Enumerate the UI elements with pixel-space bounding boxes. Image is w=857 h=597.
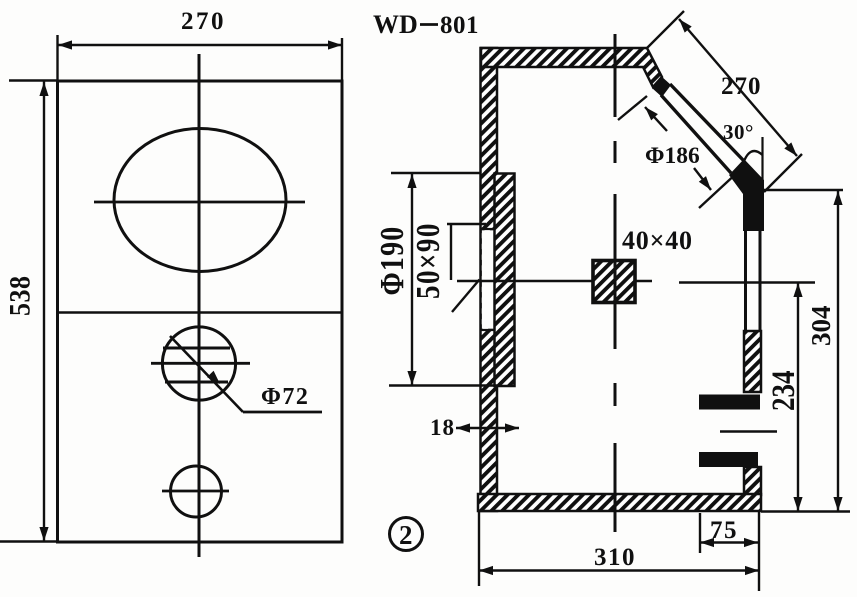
dim phi186: lower arrowhead: [699, 176, 711, 190]
svg-text:2: 2: [399, 520, 413, 550]
dim 75: left arrow: [700, 538, 714, 547]
section: black gasket on duct: [652, 76, 671, 97]
dim 18: right arrow: [505, 423, 519, 432]
svg-text:30°: 30°: [723, 120, 754, 144]
section: speaker axis line left: [457, 280, 593, 283]
svg-text:538: 538: [3, 276, 36, 316]
dim phi186: upper boundary tick: [618, 96, 647, 120]
section: top wall hatched: [481, 48, 662, 87]
section: left wall opening (vent slot): [482, 230, 496, 328]
dim 304: bottom arrow: [833, 497, 842, 511]
svg-text:75: 75: [710, 517, 738, 544]
section: duct lower face: [661, 95, 731, 173]
phi72 leader diagonal: [170, 336, 243, 412]
svg-text:270: 270: [181, 8, 226, 35]
mid circle horizontal center line: [151, 362, 250, 365]
svg-text:WD: WD: [373, 10, 418, 39]
svg-text:270: 270: [721, 73, 762, 100]
dim phi190: dimension line: [411, 174, 413, 385]
dim 18: left arrow: [456, 423, 470, 432]
front view box outline: [58, 81, 343, 542]
svg-text:304: 304: [806, 306, 836, 347]
speaker ellipse: [114, 129, 286, 272]
front view divider line: [58, 311, 343, 314]
dim 310: right extension: [758, 511, 760, 591]
dim 538: bottom extension: [0, 540, 58, 542]
svg-text:310: 310: [594, 544, 636, 571]
svg-text:234: 234: [766, 370, 802, 411]
angle 30: arc: [742, 151, 763, 167]
dim 304: dimension line: [837, 191, 839, 511]
dim 270 top: left arrow: [58, 40, 72, 49]
dim 304: top extension: [764, 189, 843, 191]
section: speaker axis line right stub: [635, 280, 652, 283]
dim 310: dimension line: [479, 569, 759, 571]
dim 538: top arrow: [39, 82, 48, 96]
dim phi190: top arrow: [407, 174, 416, 188]
dim 234: bottom arrow: [793, 497, 802, 511]
mid circle (port): [162, 327, 235, 400]
dim 310: left arrow: [479, 566, 493, 575]
dim 270 diagonal: lower extension: [764, 154, 802, 192]
dim 234: top arrow: [793, 283, 802, 297]
dim 270 diagonal: upper arrow: [679, 19, 692, 33]
dim phi186: lower boundary tick: [699, 171, 739, 208]
dim 270 top: right arrow: [328, 40, 342, 49]
dim 310: right arrow: [745, 566, 759, 575]
figure number circle: [390, 518, 423, 551]
section: left wall hatched: [481, 48, 498, 511]
mid circle chord upper: [163, 347, 230, 350]
svg-text:Φ186: Φ186: [645, 143, 700, 169]
section: black corner block: [729, 159, 764, 231]
svg-text:Φ190: Φ190: [372, 226, 410, 296]
note 50x90: vertical stroke: [450, 224, 452, 280]
section: terminal center line: [720, 430, 777, 432]
dim 270 diagonal: dimension line: [679, 19, 797, 156]
dim 75: dimension line: [700, 541, 758, 543]
dim phi190: top extension: [391, 172, 481, 174]
dim phi186: upper arrowhead: [645, 107, 658, 120]
dim 234: top extension: [679, 281, 815, 283]
dim 270 top: dimension line: [58, 44, 343, 46]
section: port channel left edge: [744, 229, 747, 331]
section: opening top edge: [481, 228, 496, 230]
dim 538: dimension line: [43, 81, 45, 541]
section: inner baffle hatched: [495, 174, 515, 387]
svg-text:801: 801: [440, 12, 479, 39]
section: bottom wall hatched: [478, 494, 761, 511]
bottom circle horizontal center line: [162, 490, 229, 493]
ellipse horizontal center line: [94, 201, 305, 204]
section: vertical center line dash-dot: [614, 34, 617, 532]
dim phi186: lower arrow segment: [694, 168, 711, 190]
section: terminal bar 1: [699, 395, 760, 410]
dim 270 diagonal: upper extension: [646, 11, 684, 49]
mid circle chord lower: [165, 381, 228, 384]
dim 270 top: extension left: [56, 35, 58, 81]
dim 310: left extension: [478, 511, 480, 586]
extension line bottom right: [761, 510, 850, 512]
dim 538: top extension: [9, 79, 58, 81]
bottom small circle: [171, 466, 222, 517]
dim phi190: bottom arrow: [407, 371, 416, 385]
svg-text:18: 18: [430, 415, 455, 440]
section: right wall lower hatched: [744, 467, 761, 495]
section: terminal bar 2: [699, 452, 758, 467]
dim 75: right arrow: [744, 538, 758, 547]
dim 270 diagonal: lower arrow: [784, 142, 797, 156]
angle 30: vertical reference line: [761, 137, 763, 180]
dim phi186: upper arrow segment: [645, 107, 667, 131]
dim 75: left extension: [699, 513, 701, 553]
phi72 leader horizontal: [243, 411, 322, 414]
svg-text:Φ72: Φ72: [261, 384, 309, 410]
dim 234: dimension line: [797, 283, 799, 511]
section: port channel right edge: [759, 229, 762, 331]
dim 18: line: [456, 427, 519, 430]
svg-text:40×40: 40×40: [622, 226, 693, 255]
dim 538: bottom arrow: [39, 527, 48, 541]
note 50x90: top horizontal stroke: [447, 223, 486, 225]
section: right wall upper hatched: [744, 331, 761, 392]
phi72 leader arrow: [207, 371, 220, 384]
svg-text:50×90: 50×90: [409, 222, 447, 299]
dim phi190: bottom extension: [389, 384, 497, 386]
section: duct upper face: [670, 84, 744, 161]
dim 304: top arrow: [833, 191, 842, 205]
note 50x90: diagonal stroke: [452, 280, 480, 313]
section: opening bottom edge: [481, 329, 496, 331]
section: 40x40 block: [593, 261, 635, 303]
front view vertical center line: [198, 54, 201, 557]
dim 270 top: extension right: [341, 38, 343, 84]
